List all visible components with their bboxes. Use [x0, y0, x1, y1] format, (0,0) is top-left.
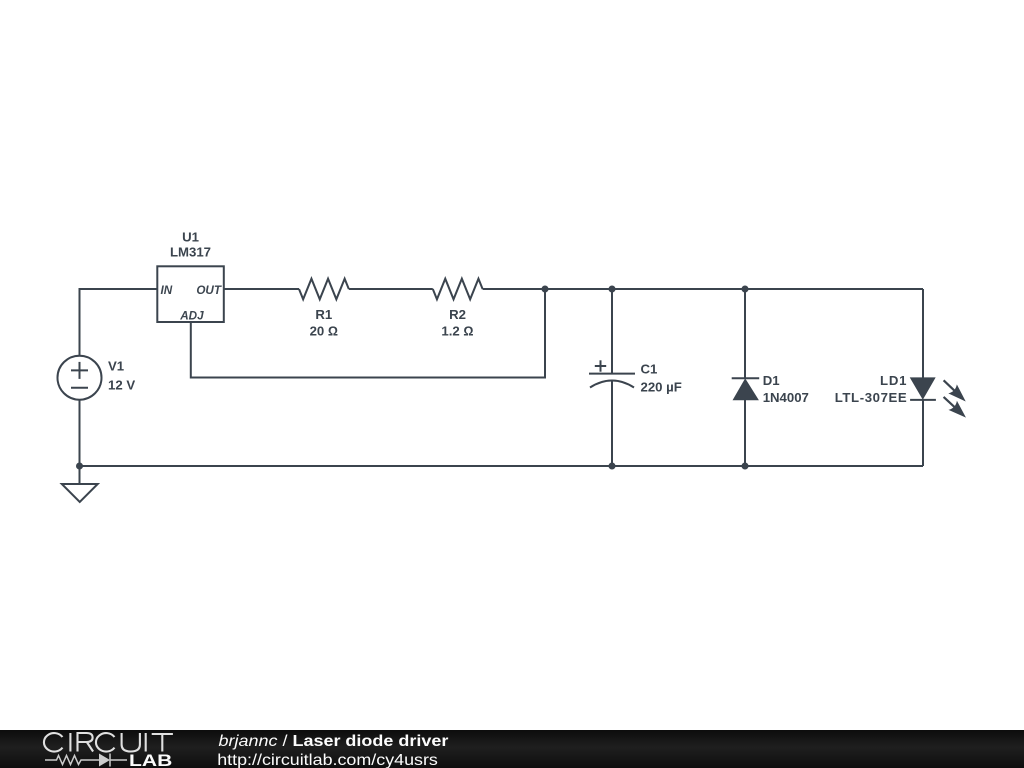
resistor R2 [433, 279, 483, 300]
wire: V1 minus terminal down to ground junction [79, 400, 81, 484]
capacitor C1 [589, 360, 635, 387]
wire: R1 right lead to R2 left lead [349, 288, 433, 290]
svg-text:220 µF: 220 µF [641, 380, 682, 395]
wire: LD1 cathode down to ground rail [922, 400, 924, 466]
resistor R1 [299, 279, 349, 300]
svg-text:LM317: LM317 [170, 244, 211, 259]
svg-text:http://circuitlab.com/cy4usrs: http://circuitlab.com/cy4usrs [217, 751, 438, 768]
svg-text:12 V: 12 V [108, 378, 135, 393]
wire: U1 OUT pin to R1 left lead [224, 288, 299, 290]
wire: C1 bottom plate down to ground rail [611, 381, 613, 466]
svg-text:IN: IN [161, 284, 173, 297]
junction node: V1/ground on bottom rail [76, 463, 83, 470]
footer bar [0, 730, 1024, 768]
CircuitLab logo wordmark CIRCUIT [44, 733, 173, 752]
junction node: D1 branch on bottom rail [742, 463, 749, 470]
diode D1 [732, 378, 760, 400]
ground [62, 484, 98, 502]
voltage source V1 [58, 356, 102, 400]
svg-text:R2: R2 [449, 307, 466, 322]
CircuitLab logo diode triangle [99, 754, 110, 767]
wire: V1 plus terminal up and right to U1 IN pin [80, 289, 158, 356]
svg-text:OUT: OUT [196, 284, 222, 297]
svg-text:R1: R1 [315, 307, 332, 322]
svg-text:LAB: LAB [129, 752, 172, 768]
wire: D1 anode down to ground rail [744, 400, 746, 466]
svg-text:LTL-307EE: LTL-307EE [835, 390, 908, 405]
svg-text:brjannc / Laser diode driver: brjannc / Laser diode driver [219, 732, 449, 750]
LED emission arrow 1 [939, 376, 970, 406]
junction node: C1 branch on top rail [609, 286, 616, 293]
svg-text:U1: U1 [182, 229, 199, 244]
junction node: D1 branch on top rail [742, 286, 749, 293]
svg-text:1N4007: 1N4007 [763, 390, 809, 405]
junction node: C1 branch on bottom rail [609, 463, 616, 470]
wire: R2 right lead across top rail to LED branch [483, 288, 923, 290]
wire: U1 ADJ pin down, right, and up to feedback node [191, 289, 545, 378]
svg-text:1.2 Ω: 1.2 Ω [441, 323, 473, 338]
junction node: feedback tap on top rail [542, 286, 549, 293]
wire: bottom ground rail [80, 465, 924, 467]
svg-text:ADJ: ADJ [179, 310, 204, 323]
LED LD1 [910, 378, 936, 400]
CircuitLab logo schematic squiggle (resistor + diode) [45, 754, 127, 767]
LED emission arrow 2 [939, 392, 970, 422]
wire: top rail down to C1 top plate [611, 289, 613, 374]
wire: top rail down to D1 cathode [744, 289, 746, 378]
regulator U1 body (LM317) [157, 266, 224, 322]
svg-text:20 Ω: 20 Ω [310, 323, 338, 338]
svg-text:V1: V1 [108, 359, 124, 374]
svg-text:C1: C1 [641, 361, 658, 376]
svg-text:LD1: LD1 [880, 373, 907, 388]
svg-text:D1: D1 [763, 373, 780, 388]
wire: top rail down to LD1 anode [922, 289, 924, 378]
